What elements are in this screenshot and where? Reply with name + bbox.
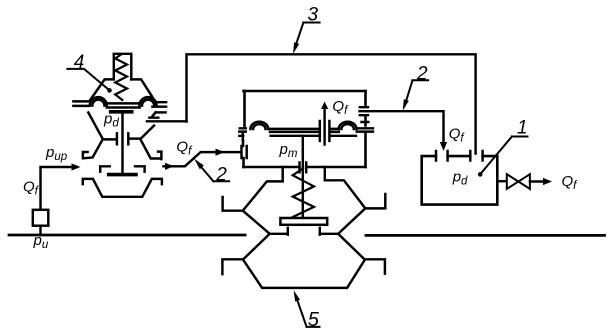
central box left edge segments [243,91,245,167]
arrow on jog toward central box [216,149,225,156]
svg-text:Qf: Qf [332,98,349,117]
svg-text:Qf: Qf [23,179,40,198]
wire central box to element 1 [367,111,444,146]
central membrane right clamp lines [357,128,373,131]
central stem [302,136,304,218]
central box bottom port bars [300,163,307,173]
relay 4 upper diaphragm left clamp lines [73,101,88,106]
relay 4 upper diaphragm left rolling bump [90,97,107,106]
arrow down into element 1 [440,142,447,151]
element 1 right port bars [470,151,482,161]
svg-text:Qf: Qf [449,126,466,145]
valve pedestal steps [288,228,320,235]
relay 4 bonnet trapezoid left side [90,79,114,101]
relay 4 spring housing [114,54,132,80]
arrow outlet Q_f [543,178,552,185]
bell chamber right wall [325,167,386,234]
element 1 tank outline [422,156,498,205]
relay 4 lower bowl left seat step [100,166,110,171]
supply line p_u left segment [9,234,245,237]
relay 4 bonnet trapezoid right side [131,79,154,100]
supply line p_u right segment [366,234,605,237]
svg-text:pd: pd [452,169,468,188]
restrictor (orifice) on Q_f branch [33,210,49,226]
callout 3 leader [296,23,320,47]
relay 4 chamber p_d left wall [83,113,103,159]
element 5 right seat bracket [365,259,385,273]
outlet pipe from element 1 [497,180,507,182]
central box right edge segments [364,91,367,167]
relay 4 flapper bar right of diaphragm [156,111,166,113]
svg-text:2: 2 [215,165,227,186]
arrow p_up into relay chamber [72,163,81,170]
valve plate above element 5 [280,218,327,225]
arrow on Q_f jog exit [165,163,174,170]
svg-text:3: 3 [308,5,319,26]
relay 4 flapper link [149,112,158,117]
central box right port plates [360,107,369,122]
svg-text:5: 5 [308,309,320,331]
wire valve outlet [530,180,547,182]
relay 4 stem [121,113,123,173]
relay 4 left nozzle tick [104,133,117,144]
callout 5 leader [296,297,320,327]
central membrane left bump [250,122,268,129]
central box left inlet port bars [242,146,247,158]
callout 4 leader [67,69,109,91]
central box left membrane port plates [239,128,246,140]
relay 4 lower bowl right seat step [135,166,145,171]
central membrane stack lines [269,129,356,136]
svg-text:pm: pm [279,141,298,160]
central box top edge [244,90,366,93]
relay 4 upper diaphragm right rolling bump [139,97,156,106]
relay 4 chamber p_d right wall [140,126,161,160]
callout 2 mid leader [200,165,230,181]
relay 4 stem top plate [111,110,132,114]
manual valve symbol [507,174,530,189]
svg-text:2: 2 [416,63,428,84]
svg-text:Qf: Qf [176,139,193,158]
callout 1 leader [480,137,527,175]
central box bottom edge segments [244,166,366,169]
relay 4 lower bowl left rim [83,179,162,197]
svg-text:1: 1 [517,118,528,139]
relay 4 stem bottom plate [109,173,136,177]
svg-text:pup: pup [45,144,68,163]
relay 4 spring [115,55,127,101]
relay 4 right nozzle tick [128,133,140,144]
wire relay output to line 3 [147,120,187,122]
callout 2 top leader [406,80,429,103]
relay 4 upper diaphragm centre double line [107,103,140,107]
element 5 left seat bracket [222,259,243,274]
wire Q_f jog from relay to element 2 line [164,152,241,166]
svg-text:4: 4 [74,52,85,73]
element 1 left port bars [436,151,448,161]
svg-text:Qf: Qf [562,173,579,192]
central membrane right bump [339,122,357,129]
wire line 3 top horizontal with verticals [187,54,476,153]
bell chamber left wall [223,167,283,234]
element 5 valve body hexagon [243,234,365,288]
central nozzle tall bars [320,121,330,141]
arrow Q_f upward through central nozzle [323,107,325,145]
central spring to plate [293,169,314,218]
relay 4 upper diaphragm right clamp lines [152,102,166,107]
wire p_u to restrictor to p_up corner [41,167,74,235]
